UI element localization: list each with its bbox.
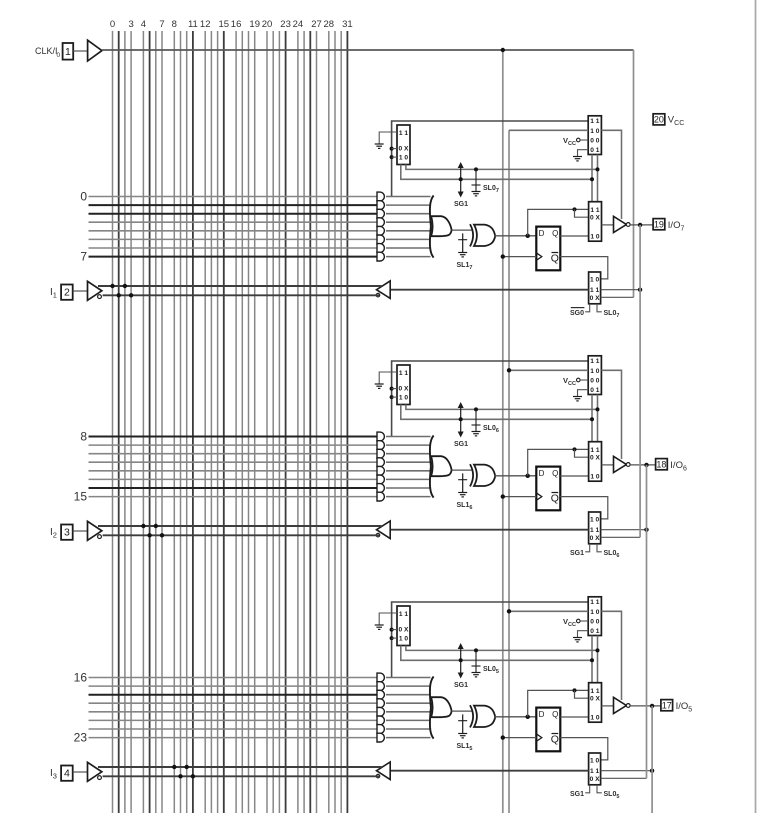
svg-text:0: 0 bbox=[80, 190, 87, 204]
svg-text:1 0: 1 0 bbox=[399, 155, 408, 162]
svg-text:23: 23 bbox=[280, 19, 291, 30]
svg-text:D: D bbox=[539, 469, 545, 478]
svg-text:1 1: 1 1 bbox=[590, 207, 599, 214]
svg-text:1 1: 1 1 bbox=[590, 599, 599, 606]
svg-text:0 0: 0 0 bbox=[590, 619, 599, 626]
svg-text:0 X: 0 X bbox=[590, 215, 600, 222]
svg-text:0 1: 0 1 bbox=[590, 628, 599, 635]
svg-text:20: 20 bbox=[262, 19, 273, 30]
svg-text:1 1: 1 1 bbox=[399, 611, 408, 618]
svg-text:0 1: 0 1 bbox=[590, 387, 599, 394]
svg-text:SG1: SG1 bbox=[570, 791, 584, 798]
svg-text:1 1: 1 1 bbox=[590, 688, 599, 695]
svg-text:8: 8 bbox=[172, 19, 177, 30]
svg-text:0 X: 0 X bbox=[590, 776, 600, 783]
svg-text:D: D bbox=[539, 229, 545, 238]
svg-text:Q: Q bbox=[551, 493, 559, 505]
svg-text:1 1: 1 1 bbox=[399, 130, 408, 137]
svg-text:SG1: SG1 bbox=[454, 441, 468, 448]
svg-text:23: 23 bbox=[74, 731, 88, 745]
svg-text:1 1: 1 1 bbox=[399, 370, 408, 377]
svg-text:0 0: 0 0 bbox=[590, 138, 599, 145]
svg-text:0: 0 bbox=[110, 19, 115, 30]
svg-text:D: D bbox=[539, 710, 545, 719]
svg-text:Q: Q bbox=[552, 469, 558, 478]
svg-text:1 1: 1 1 bbox=[590, 118, 599, 125]
svg-text:19: 19 bbox=[654, 219, 664, 229]
svg-text:18: 18 bbox=[656, 459, 666, 469]
svg-text:SG1: SG1 bbox=[454, 201, 468, 208]
svg-text:0 1: 0 1 bbox=[590, 147, 599, 154]
svg-text:SG1: SG1 bbox=[570, 550, 584, 557]
svg-text:2: 2 bbox=[64, 286, 70, 298]
svg-text:1 1: 1 1 bbox=[590, 447, 599, 454]
svg-text:SG1: SG1 bbox=[454, 682, 468, 689]
svg-text:0 X: 0 X bbox=[399, 146, 409, 153]
svg-text:19: 19 bbox=[249, 19, 260, 30]
svg-text:16: 16 bbox=[231, 19, 242, 30]
svg-text:4: 4 bbox=[64, 767, 70, 779]
svg-text:8: 8 bbox=[80, 430, 87, 444]
svg-text:16: 16 bbox=[74, 671, 88, 685]
svg-text:7: 7 bbox=[159, 19, 164, 30]
svg-text:11: 11 bbox=[188, 19, 198, 30]
svg-text:28: 28 bbox=[324, 19, 335, 30]
svg-text:1 0: 1 0 bbox=[590, 128, 599, 135]
svg-text:3: 3 bbox=[64, 526, 70, 538]
svg-text:1 0: 1 0 bbox=[399, 395, 408, 402]
svg-text:1 1: 1 1 bbox=[590, 768, 599, 775]
svg-text:Q: Q bbox=[552, 710, 558, 719]
svg-text:1: 1 bbox=[65, 46, 71, 58]
svg-text:7: 7 bbox=[80, 250, 87, 264]
svg-text:Q: Q bbox=[551, 253, 559, 265]
svg-text:1 0: 1 0 bbox=[590, 757, 599, 764]
svg-text:0 X: 0 X bbox=[399, 627, 409, 634]
svg-text:1 0: 1 0 bbox=[590, 714, 599, 721]
svg-text:27: 27 bbox=[311, 19, 322, 30]
svg-text:0 X: 0 X bbox=[590, 696, 600, 703]
svg-text:0 X: 0 X bbox=[399, 386, 409, 393]
svg-text:4: 4 bbox=[141, 19, 146, 30]
svg-text:1 1: 1 1 bbox=[590, 527, 599, 534]
svg-text:0 X: 0 X bbox=[590, 455, 600, 462]
svg-text:20: 20 bbox=[654, 114, 664, 124]
svg-text:1 0: 1 0 bbox=[590, 473, 599, 480]
svg-text:0: 0 bbox=[57, 52, 61, 59]
svg-text:31: 31 bbox=[342, 19, 353, 30]
svg-text:Q: Q bbox=[552, 229, 558, 238]
svg-text:1 0: 1 0 bbox=[590, 368, 599, 375]
svg-text:CLK/I: CLK/I bbox=[35, 46, 58, 56]
svg-text:15: 15 bbox=[74, 490, 88, 504]
svg-text:12: 12 bbox=[200, 19, 211, 30]
svg-text:1 1: 1 1 bbox=[590, 287, 599, 294]
svg-text:SG0: SG0 bbox=[570, 310, 584, 317]
svg-text:0 0: 0 0 bbox=[590, 378, 599, 385]
svg-text:0 X: 0 X bbox=[590, 295, 600, 302]
svg-text:Q: Q bbox=[551, 734, 559, 746]
svg-text:24: 24 bbox=[293, 19, 304, 30]
svg-text:1 0: 1 0 bbox=[590, 516, 599, 523]
svg-text:1 0: 1 0 bbox=[590, 233, 599, 240]
svg-text:1 0: 1 0 bbox=[590, 609, 599, 616]
svg-text:1 0: 1 0 bbox=[590, 276, 599, 283]
svg-text:3: 3 bbox=[128, 19, 133, 30]
svg-text:1 1: 1 1 bbox=[590, 358, 599, 365]
svg-text:0 X: 0 X bbox=[590, 535, 600, 542]
svg-text:17: 17 bbox=[662, 700, 672, 710]
svg-text:1 0: 1 0 bbox=[399, 636, 408, 643]
svg-text:15: 15 bbox=[219, 19, 230, 30]
